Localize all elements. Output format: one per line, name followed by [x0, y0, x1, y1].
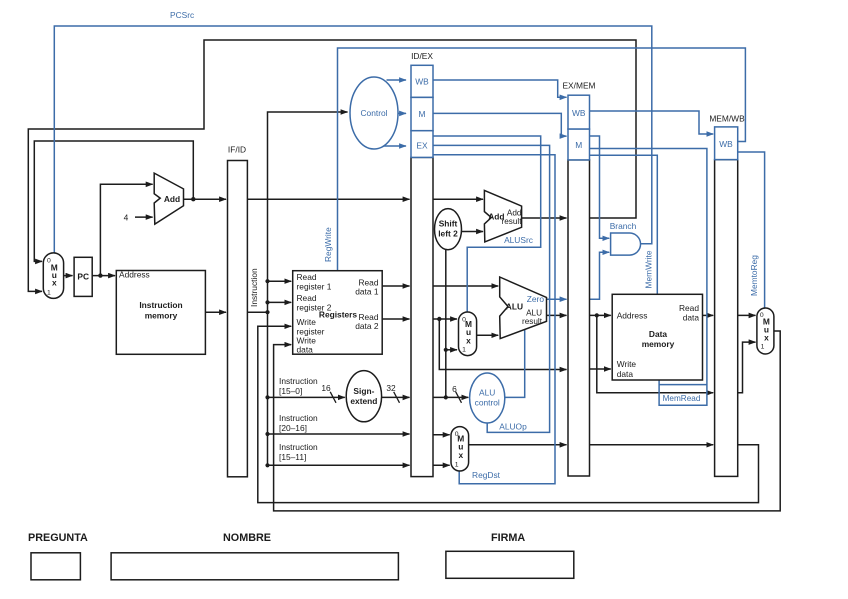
svg-text:1: 1 [462, 347, 466, 354]
svg-text:data 2: data 2 [355, 321, 379, 331]
svg-text:ALU: ALU [506, 302, 523, 312]
svg-text:MemRead: MemRead [663, 394, 701, 403]
svg-text:NOMBRE: NOMBRE [223, 532, 271, 544]
svg-text:ALU: ALU [479, 388, 495, 398]
svg-text:Write: Write [297, 317, 317, 327]
svg-text:0: 0 [47, 258, 51, 265]
svg-text:Write: Write [617, 359, 637, 369]
svg-text:result: result [522, 317, 543, 326]
svg-text:ALUOp: ALUOp [499, 422, 527, 432]
svg-text:memory: memory [145, 311, 178, 321]
svg-text:left 2: left 2 [438, 229, 458, 239]
svg-text:x: x [458, 450, 463, 460]
svg-text:32: 32 [386, 383, 396, 393]
svg-text:Data: Data [649, 329, 667, 339]
svg-text:data 1: data 1 [355, 287, 379, 297]
svg-text:0: 0 [760, 312, 764, 319]
svg-text:Sign-: Sign- [353, 386, 374, 396]
svg-text:Shift: Shift [439, 219, 458, 229]
svg-text:Address: Address [617, 311, 648, 321]
svg-text:Instruction: Instruction [279, 442, 318, 452]
svg-text:PREGUNTA: PREGUNTA [28, 532, 88, 544]
svg-text:Address: Address [119, 270, 150, 280]
svg-text:16: 16 [321, 383, 331, 393]
svg-text:MEM/WB: MEM/WB [709, 114, 745, 124]
svg-text:x: x [52, 278, 57, 288]
svg-text:[20–16]: [20–16] [279, 423, 307, 433]
svg-text:4: 4 [124, 213, 129, 223]
svg-text:1: 1 [47, 290, 51, 297]
svg-text:0: 0 [462, 317, 466, 324]
svg-text:WB: WB [415, 77, 429, 87]
svg-text:Branch: Branch [610, 221, 637, 231]
svg-text:Add: Add [164, 194, 180, 204]
svg-text:M: M [419, 109, 426, 119]
svg-text:result: result [501, 217, 522, 226]
svg-text:Read: Read [679, 303, 699, 313]
svg-text:x: x [764, 333, 769, 343]
svg-text:Registers: Registers [319, 310, 358, 320]
svg-text:[15–0]: [15–0] [279, 386, 302, 396]
svg-text:RegDst: RegDst [472, 470, 501, 480]
svg-text:EX/MEM: EX/MEM [562, 81, 595, 91]
svg-text:PCSrc: PCSrc [170, 10, 194, 20]
svg-text:M: M [575, 140, 582, 150]
svg-text:Instruction: Instruction [139, 300, 182, 310]
svg-text:Instruction: Instruction [249, 268, 259, 307]
svg-text:data: data [683, 313, 700, 323]
svg-text:MemtoReg: MemtoReg [749, 255, 759, 296]
svg-text:Read: Read [297, 293, 317, 303]
svg-text:6: 6 [452, 384, 457, 394]
svg-text:0: 0 [455, 431, 459, 438]
svg-text:IF/ID: IF/ID [228, 145, 246, 155]
svg-text:data: data [297, 345, 314, 355]
svg-text:1: 1 [761, 344, 765, 351]
svg-text:[15–11]: [15–11] [279, 452, 306, 462]
svg-text:x: x [466, 335, 471, 345]
svg-text:Instruction: Instruction [279, 413, 318, 423]
svg-text:ID/EX: ID/EX [411, 51, 433, 61]
svg-text:memory: memory [642, 339, 675, 349]
svg-text:FIRMA: FIRMA [491, 532, 525, 544]
svg-text:WB: WB [719, 139, 733, 149]
svg-text:ALUSrc: ALUSrc [504, 235, 533, 245]
svg-text:Control: Control [361, 108, 388, 118]
svg-text:PC: PC [77, 272, 89, 282]
svg-text:Read: Read [297, 272, 317, 282]
svg-text:1: 1 [455, 461, 459, 468]
svg-text:data: data [617, 369, 634, 379]
svg-text:extend: extend [350, 396, 377, 406]
svg-text:control: control [475, 398, 500, 408]
svg-text:RegWrite: RegWrite [323, 227, 333, 262]
svg-text:Instruction: Instruction [279, 376, 318, 386]
svg-text:EX: EX [416, 141, 428, 151]
svg-text:WB: WB [572, 108, 586, 118]
svg-text:register 1: register 1 [297, 282, 332, 292]
svg-text:Zero: Zero [527, 294, 545, 304]
svg-text:MemWrite: MemWrite [644, 250, 654, 288]
